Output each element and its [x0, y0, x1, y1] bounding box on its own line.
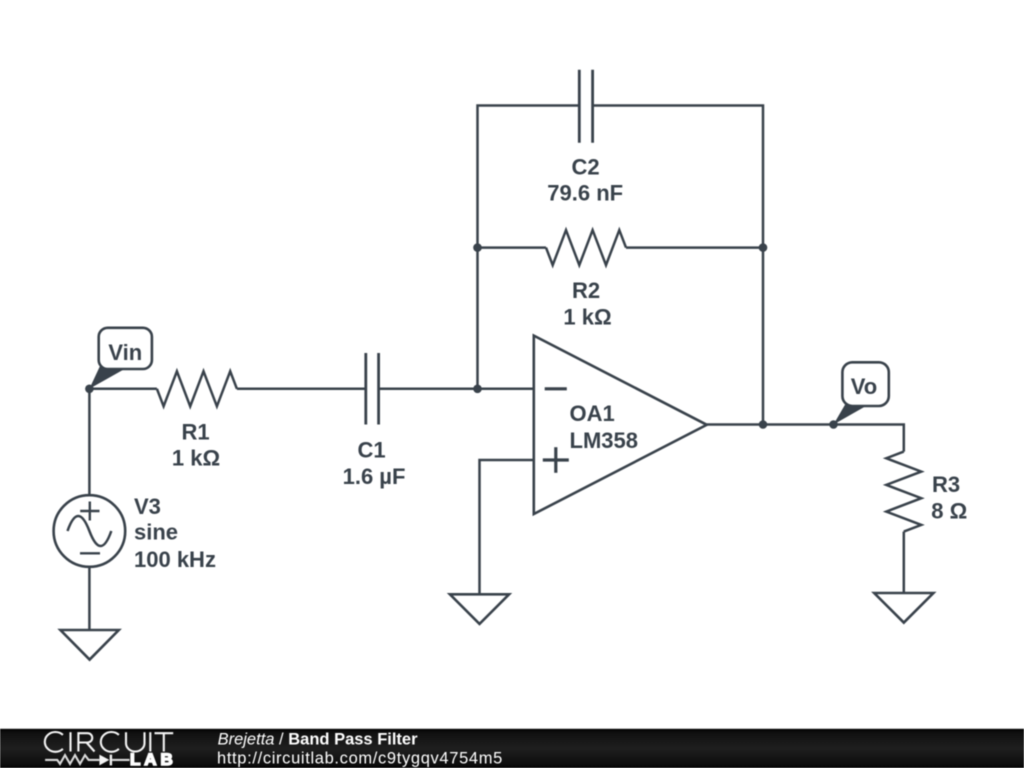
svg-text:1.6 µF: 1.6 µF: [343, 464, 406, 489]
svg-text:79.6 nF: 79.6 nF: [547, 181, 623, 206]
op-amp plus symbol: [543, 447, 569, 473]
junction node Vo: [829, 420, 838, 429]
svg-text:C2: C2: [572, 155, 600, 180]
svg-text:Brejetta / Band Pass Filter: Brejetta / Band Pass Filter: [218, 730, 419, 748]
svg-text:sine: sine: [134, 520, 178, 545]
svg-text:V3: V3: [134, 494, 161, 519]
svg-text:Vo: Vo: [851, 374, 877, 399]
junction node Vin: [85, 385, 94, 394]
svg-text:R3: R3: [932, 472, 960, 497]
capacitor C1: [366, 353, 379, 425]
svg-text:R2: R2: [572, 278, 600, 303]
junction node output feedback: [759, 420, 768, 429]
svg-text:Vin: Vin: [108, 340, 142, 365]
wire V3 bottom: [88, 567, 91, 631]
resistor R3: [886, 452, 921, 532]
wire R2 left lead: [478, 246, 547, 249]
wire C1 to op-amp minus input: [379, 388, 534, 391]
svg-text:1 kΩ: 1 kΩ: [563, 304, 611, 329]
resistor R1: [157, 371, 237, 406]
svg-text:C1: C1: [357, 437, 385, 462]
ground (V3): [60, 630, 118, 660]
node label Vin: [89, 328, 151, 389]
svg-text:1 kΩ: 1 kΩ: [172, 446, 220, 471]
CircuitLab logo resistor-diode line: [45, 755, 129, 766]
node label Vo: [834, 362, 889, 424]
op-amp minus symbol: [545, 387, 567, 390]
ground (op-amp plus input): [450, 594, 509, 624]
wire feedback left vertical: [478, 106, 580, 389]
svg-text:LM358: LM358: [570, 428, 638, 453]
V3 plus sign: [80, 502, 99, 521]
CircuitLab logo text CIRCUIT: [45, 732, 173, 752]
svg-text:100 kHz: 100 kHz: [134, 547, 216, 572]
ground (R3): [874, 593, 933, 623]
wire plus input: [480, 460, 534, 593]
V3 minus sign: [80, 552, 100, 554]
svg-text:LAB: LAB: [130, 750, 177, 768]
voltage source V3: [54, 495, 126, 567]
svg-text:R1: R1: [181, 420, 209, 445]
resistor R2: [546, 230, 626, 265]
wire C2 to right vertical: [593, 106, 763, 425]
svg-text:http://circuitlab.com/c9tygqv4: http://circuitlab.com/c9tygqv4754m5: [217, 750, 503, 768]
wire output: [707, 425, 904, 452]
wire V3 top: [88, 389, 91, 495]
op-amp OA1: [534, 336, 707, 514]
junction node minus input: [473, 385, 482, 394]
capacitor C2: [579, 70, 592, 143]
wire R2 right lead: [626, 246, 763, 249]
junction node R2 right: [759, 243, 768, 252]
wire R3 to ground: [903, 532, 906, 593]
junction node R2 left: [473, 243, 482, 252]
svg-text:OA1: OA1: [570, 401, 615, 426]
wire Vin to R1: [89, 388, 156, 391]
V3 sine wave: [68, 516, 112, 546]
svg-text:8 Ω: 8 Ω: [931, 499, 967, 524]
wire R1 to C1: [237, 388, 366, 391]
